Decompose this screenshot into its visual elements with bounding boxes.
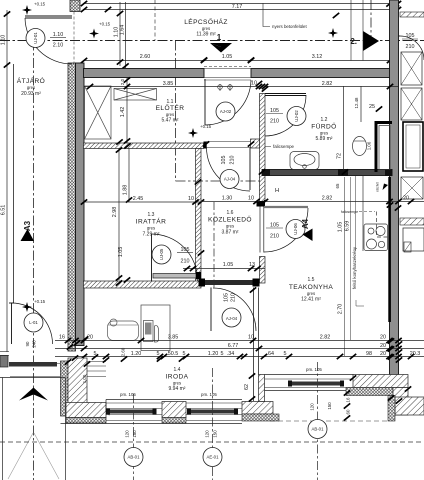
wall: SW corner hatched band vertical (68, 358, 87, 411)
fixture neighbour bold rect (403, 122, 423, 171)
elevation star +0.15 átjáró (22, 302, 32, 312)
svg-text:1.10: 1.10 (1, 35, 7, 46)
wall: right neighbour hatch strip top (400, 12, 424, 17)
node tick cluster top wall joints (201, 57, 207, 62)
svg-text:3.85: 3.85 (163, 81, 174, 87)
svg-text:pm. 105: pm. 105 (120, 392, 136, 397)
window átjáró dark glazing (9, 362, 57, 367)
svg-text:pm. 105: pm. 105 (306, 367, 322, 372)
wall: átjáró west edge line (13, 64, 15, 303)
wall: left wall gray (76, 63, 85, 346)
svg-text:5: 5 (157, 351, 160, 357)
axis window AB-01 (133, 394, 135, 480)
svg-text:3.87 m²: 3.87 m² (222, 230, 239, 236)
wire: vertical dim line x127 elotér (126, 78, 128, 144)
svg-text:105: 105 (270, 108, 279, 114)
svg-text:2.60: 2.60 (140, 54, 151, 60)
svg-text:5: 5 (221, 351, 224, 357)
wire: dim line 2.82 teakonyha top (265, 201, 424, 203)
svg-text:12.48: 12.48 (354, 97, 359, 109)
wall: irattár east hatched wall (196, 149, 202, 287)
svg-text:120: 120 (310, 403, 315, 411)
node UJ-06 bubble (286, 220, 305, 239)
window AB-01 right glazing dark (291, 382, 340, 386)
wire: top dimension line 7.17 (83, 9, 398, 11)
wall: elotér/fürdő divider hatched x259.5-265 (260, 94, 266, 202)
svg-text:pm. 105: pm. 105 (201, 392, 217, 397)
node AJ-04 bubble (iroda) (222, 308, 241, 327)
marker vent arrow (383, 184, 389, 191)
node black cap közlekedő east wall (257, 201, 266, 207)
node tick cluster SE corner (388, 395, 394, 400)
wire: top dimension line upper (83, 3, 398, 5)
fixture upper cabinet dashed (377, 212, 389, 238)
node tick cluster right wall (387, 202, 393, 207)
wire: dim line 1.30 közlekedő (201, 201, 260, 203)
svg-text:210: 210 (181, 259, 190, 265)
door UJ-02 leaf (265, 93, 306, 95)
svg-text:nyers betonfelület: nyers betonfelület (272, 24, 307, 29)
svg-text:1.05: 1.05 (338, 222, 344, 233)
svg-text:210: 210 (231, 293, 237, 302)
wire: dim line x343.5 fürdő (343, 86, 345, 170)
wall: fürdő south dark wall (262, 170, 392, 176)
svg-text:.34: .34 (227, 351, 235, 357)
window AB-01 frame lines (106, 402, 162, 404)
wall: irattár south hatched wall (84, 281, 202, 288)
wall: teakonyha south band outer line (265, 390, 354, 392)
fixture kitchen counter edge (362, 176, 364, 251)
svg-text:felső konyhaszekrény: felső konyhaszekrény (352, 246, 357, 289)
svg-text:6.77: 6.77 (228, 343, 239, 349)
wire: dim chain y340 (55, 340, 424, 342)
wire: dashed line y442 global (0, 441, 424, 443)
section arrow 2 (363, 31, 379, 51)
wall: közlekedő south dark bar (201, 280, 260, 285)
svg-text:1.06: 1.06 (367, 141, 372, 150)
door AJ-02 opening lines in top wall (204, 68, 251, 70)
fixture neighbour X-box 3 (401, 177, 423, 199)
svg-text:FÜRDŐ: FÜRDŐ (311, 122, 336, 131)
svg-text:falicsempe: falicsempe (273, 144, 295, 149)
wire: dashed vline lépcsőház (154, 0, 156, 41)
svg-text:AJ-04: AJ-04 (226, 316, 238, 321)
svg-text:50.5: 50.5 (168, 351, 179, 357)
marker A3 arrow bottom (19, 388, 48, 401)
svg-text:2.45: 2.45 (133, 196, 144, 202)
svg-text:2.82: 2.82 (322, 81, 333, 87)
node AJ-02 bubble (216, 102, 235, 121)
svg-text:105: 105 (406, 33, 415, 39)
svg-text:TEAKONYHA: TEAKONYHA (289, 284, 333, 291)
door UJ-06 swing arc (264, 208, 308, 252)
svg-text:1.20: 1.20 (208, 351, 219, 357)
wall: SE cross-hatch strip vertical (388, 396, 395, 422)
node UJ-02 bubble (287, 107, 306, 126)
svg-text:2.98: 2.98 (112, 207, 118, 218)
elevation star +0.15 lépcsőház (89, 29, 99, 39)
wall: SW corner cross-hatch strip bottom (66, 418, 106, 424)
wall: közlekedő east wall lower hatched (260, 257, 266, 284)
wall: step cross-hatch strip below (242, 414, 279, 421)
node AB-01 right bubble (308, 420, 327, 439)
door adjacent unit top right arc (400, 36, 424, 60)
svg-text:2.: 2. (350, 37, 357, 46)
svg-text:+0.15: +0.15 (34, 299, 46, 304)
svg-text:ELŐTÉR: ELŐTÉR (156, 103, 185, 112)
node UJ-05 bubble (152, 245, 171, 264)
svg-text:72: 72 (337, 153, 343, 159)
door AJ-04 iroda leaf (210, 288, 212, 332)
wire: dim chain y356.5 (55, 356, 424, 358)
svg-text:1.05: 1.05 (223, 262, 234, 268)
window AE-01 frame lines (186, 402, 242, 404)
svg-text:210: 210 (230, 156, 236, 165)
svg-text:2.82: 2.82 (320, 335, 331, 341)
wire: vertical dim line x125 (125, 2, 127, 68)
svg-text:10: 10 (248, 335, 254, 341)
node corner tick cluster left wall end (67, 344, 73, 349)
wire: vertical dim line x117 (119, 2, 121, 66)
wire: dimension line y56 (84, 60, 398, 62)
svg-text:210: 210 (406, 44, 415, 50)
svg-text:ÁTJÁRÓ: ÁTJÁRÓ (17, 76, 45, 85)
svg-text:1.42: 1.42 (120, 107, 126, 118)
wire: left vertical dimension line (6, 10, 8, 352)
svg-text:2.82: 2.82 (322, 196, 333, 202)
fixture neighbour X-box 2 (401, 88, 422, 120)
fixture stove/sink unit (364, 224, 388, 251)
wire: dim chain y348.5 (55, 348, 424, 350)
node tick cluster irattár wall (116, 280, 122, 285)
wall: right neighbour hatch strip middle (400, 218, 424, 225)
door UJ-01 swing arc (25, 18, 72, 64)
elevation star +0.15 top-left (22, 5, 32, 15)
node UJ-01 bubble (26, 29, 45, 48)
door L-01 leaf (11, 303, 13, 344)
svg-text:25: 25 (369, 104, 375, 110)
wall: SW corner hatched band bottom (66, 403, 106, 418)
svg-text:150: 150 (132, 430, 137, 438)
wall: iroda/teakonyha divider thin (253, 288, 255, 402)
node tick iroda top windows (121, 356, 127, 361)
svg-text:7.17: 7.17 (232, 4, 243, 10)
svg-text:3.85: 3.85 (168, 335, 179, 341)
svg-text:falicsempe: falicsempe (341, 210, 358, 214)
section line 1-1 horizontal dash-dot (0, 40, 424, 42)
node AB-01 bubble (124, 448, 143, 467)
svg-text:105: 105 (221, 156, 227, 165)
svg-text:20: 20 (380, 343, 386, 349)
section arrow 1 (210, 43, 232, 53)
svg-text:gres: gres (202, 26, 210, 31)
node sliding door pocket cap (196, 272, 201, 279)
wall: left edge pier dark (0, 356, 8, 368)
svg-text:gres: gres (173, 381, 181, 386)
svg-text:105: 105 (270, 223, 279, 229)
svg-text:5.47 m²: 5.47 m² (162, 118, 179, 124)
svg-text:9.94 m²: 9.94 m² (169, 386, 186, 392)
door UJ-05 swing arc (152, 234, 198, 281)
svg-text:10: 10 (188, 196, 194, 202)
wall: left wall cross-hatch strip top (above door UJ-01) (70, 0, 80, 12)
svg-text:11.39 m²: 11.39 m² (196, 32, 216, 38)
section line A4 elotér vertical (175, 41, 177, 182)
svg-text:10: 10 (248, 196, 254, 202)
svg-text:H: H (275, 188, 279, 194)
door UJ-01 opening dashed jamb (73, 12, 75, 64)
door UJ-01 leaf (25, 15, 72, 17)
svg-text:2.0: 2.0 (120, 78, 125, 85)
wire: dim line 3.85 elotér (84, 86, 260, 88)
door AJ-04 opening lines közlekedő north (207, 141, 251, 143)
marker A4 triangle (303, 229, 313, 242)
svg-text:AJ-04: AJ-04 (224, 177, 236, 182)
svg-text:65: 65 (335, 183, 340, 188)
wall: step hatched vertical piece (259, 375, 265, 402)
svg-text:UJ-06: UJ-06 (293, 223, 298, 235)
wire: dim line x361 fürdő (360, 86, 362, 122)
svg-text:LÉPCSŐHÁZ: LÉPCSŐHÁZ (184, 17, 228, 26)
node door switch symbols (218, 85, 223, 90)
svg-text:20.93 m²: 20.93 m² (21, 91, 41, 97)
svg-text:1.05: 1.05 (118, 247, 124, 258)
wall: SE hatched band right (395, 397, 424, 415)
door L-01 swing arc (12, 303, 53, 344)
wire: extension lines top right (350, 0, 352, 61)
svg-text:IRODA: IRODA (166, 374, 189, 381)
svg-text:6.51: 6.51 (1, 205, 7, 216)
stair room outline bottom-left (0, 377, 66, 379)
svg-text:AB-01: AB-01 (312, 427, 325, 432)
door AJ-02 leaf (204, 79, 206, 125)
svg-text:64: 64 (268, 351, 274, 357)
wire: vertical dim line x129 irattár (128, 148, 130, 202)
wire: dashed line y421 (270, 420, 388, 422)
svg-text:105: 105 (181, 247, 190, 253)
axis window AE-01 (212, 368, 214, 480)
fixture neighbour X-box 1 (401, 52, 422, 85)
node tick marks top (81, 1, 87, 6)
svg-text:5.89 m²: 5.89 m² (316, 136, 333, 142)
wall: teakonyha south band inner line (265, 374, 354, 376)
wall: window pier hatched (162, 402, 186, 418)
svg-text:IRATTÁR: IRATTÁR (136, 217, 167, 226)
svg-text:1.10: 1.10 (53, 32, 64, 38)
svg-text:gres: gres (320, 131, 328, 136)
wall: top gray wall left segment (84, 69, 205, 78)
svg-text:L-01: L-01 (29, 320, 38, 325)
svg-text:90: 90 (25, 341, 30, 346)
svg-text:AE-01: AE-01 (207, 455, 220, 460)
svg-text:gres: gres (147, 226, 155, 231)
door AJ-02 swing arc (205, 80, 251, 125)
wall: window pier cross-hatch strip (162, 418, 186, 424)
door UJ-02 swing arc (265, 95, 306, 136)
node L-01 bubble (24, 313, 43, 332)
svg-text:UJ-05: UJ-05 (159, 248, 164, 260)
svg-text:KÖZLEKEDŐ: KÖZLEKEDŐ (208, 215, 252, 224)
svg-text:20.3: 20.3 (410, 351, 421, 357)
svg-text:1.88: 1.88 (123, 185, 129, 196)
wall: SE cross-hatch strip (346, 388, 393, 396)
section line A4 horizontal jog (176, 180, 263, 182)
svg-text:1.64: 1.64 (120, 25, 126, 36)
wire: dim line 2.82 fürdő (265, 86, 398, 88)
svg-text:1.2: 1.2 (321, 117, 328, 123)
svg-text:120: 120 (125, 430, 130, 438)
svg-text:2.70: 2.70 (338, 304, 344, 315)
window AB-01 glazing dark (108, 410, 156, 414)
fixture neighbour rect + diagonal square (403, 228, 424, 251)
svg-text:AJ-02: AJ-02 (220, 109, 232, 114)
wall: step hatched horizontal piece (242, 402, 273, 415)
svg-text:20: 20 (380, 351, 386, 357)
svg-text:1.6: 1.6 (227, 210, 234, 216)
axis window AB-01 right (317, 362, 319, 480)
svg-text:1.30: 1.30 (222, 196, 233, 202)
svg-text:105: 105 (224, 293, 230, 302)
svg-text:1.5: 1.5 (308, 277, 315, 283)
svg-text:+0.15: +0.15 (99, 22, 111, 27)
svg-text:3.12: 3.12 (312, 54, 323, 60)
window 1.00 porch lines (87, 361, 106, 363)
wall: SE hatched band vertical (393, 388, 408, 416)
svg-text:2.10: 2.10 (53, 43, 64, 49)
axis A3 vertical dash-dot (33, 41, 35, 480)
svg-text:1.00: 1.00 (82, 374, 87, 383)
wire: vertical dim line x119 irattár (118, 148, 120, 280)
window AE-01 glazing dark (190, 410, 234, 414)
svg-text:1: 1 (217, 33, 222, 42)
wall: stub közlekedő north-east hatched (251, 139, 260, 148)
stair diagonals (8, 433, 59, 479)
svg-text:5: 5 (183, 351, 186, 357)
svg-text:A4: A4 (301, 218, 310, 229)
wall: left wall cross-hatch strip (68, 63, 76, 351)
node tick cluster bottom corner SW (65, 359, 71, 364)
door UJ-05 sliding bar (153, 274, 196, 279)
wire: dim line x350.5 teakonyha (350, 177, 352, 340)
door AJ-04 iroda swing arc (213, 288, 256, 331)
svg-text:210: 210 (270, 119, 279, 125)
svg-text:150: 150 (213, 430, 218, 438)
svg-text:13: 13 (249, 262, 255, 268)
svg-text:60: 60 (346, 409, 351, 414)
fixture shelf X elotér top (114, 89, 157, 101)
window AB-01 right frame lines (265, 378, 354, 380)
wire: dim line 2.45 irattár (84, 201, 201, 203)
node tick cluster corridor top (195, 179, 201, 184)
fixture cabinet iroda (141, 305, 170, 351)
svg-text:48: 48 (106, 410, 111, 415)
svg-text:1.20: 1.20 (131, 351, 142, 357)
svg-text:2.60: 2.60 (121, 347, 126, 356)
door AJ-04 swing arc (207, 148, 251, 192)
door UJ-06 jambs (259, 207, 261, 253)
section line 2 vertical top (370, 0, 372, 41)
svg-text:UJ-01: UJ-01 (33, 32, 38, 44)
window átjáró south frame (10, 363, 60, 365)
door UJ-06 leaf (264, 206, 308, 208)
svg-text:16: 16 (346, 397, 351, 402)
door UJ-05 leaf (151, 234, 153, 281)
svg-text:98: 98 (366, 351, 372, 357)
elevation star +0.15 elotér (188, 128, 198, 138)
svg-text:+0.15: +0.15 (34, 2, 46, 7)
wall: SW corner outer cross-hatch strip vertical (61, 361, 69, 416)
svg-text:1.4: 1.4 (174, 367, 181, 373)
fixture shower duct fürdő thick black box (376, 123, 392, 173)
wall: iroda south outer line (61, 423, 243, 425)
svg-text:+0.15: +0.15 (200, 124, 212, 129)
svg-text:A3: A3 (23, 220, 32, 231)
wire: dim line 1.05 közlekedő bottom (183, 268, 265, 270)
node black cap irattár north wall end (204, 142, 207, 149)
axis corridor dash-dot x214 (213, 202, 215, 288)
node tick entrance top (256, 81, 262, 86)
fixture closet X elotér west (85, 86, 112, 139)
node AJ-04 bubble (közlekedő) (220, 170, 239, 189)
wall: kitchen black liner on right wall (388, 177, 391, 322)
svg-text:gres: gres (307, 291, 315, 296)
wall: top gray wall right segment (251, 69, 390, 78)
fixture WC fürdő (353, 137, 367, 156)
wall: irattár north hatched wall (84, 143, 204, 149)
svg-text:7.29 m²: 7.29 m² (143, 232, 160, 238)
svg-text:5: 5 (284, 351, 287, 357)
svg-text:1.05: 1.05 (222, 54, 233, 60)
wall: right gray wall (390, 0, 399, 375)
door AJ-04 leaf (közlekedő north) (249, 148, 251, 191)
svg-text:6.59: 6.59 (345, 221, 351, 232)
svg-text:gres: gres (27, 85, 35, 90)
node AE-01 bubble (203, 448, 222, 467)
marker A3 triangle (21, 229, 35, 241)
svg-text:120: 120 (205, 430, 210, 438)
node tick cluster fürdő wall (259, 169, 265, 174)
svg-text:62: 62 (244, 384, 250, 390)
elevation star top right (328, 28, 338, 38)
wire: dim line x344.5 teakonyha (344, 177, 346, 356)
svg-text:elszívó: elszívó (376, 182, 380, 192)
svg-text:20: 20 (380, 335, 386, 341)
wall: SE hatched band top (353, 375, 408, 388)
svg-text:12.41 m²: 12.41 m² (301, 297, 321, 303)
svg-text:16: 16 (59, 335, 65, 341)
fixture washbasin fürdő (290, 152, 319, 170)
svg-text:240: 240 (32, 340, 37, 348)
svg-text:gres: gres (226, 224, 234, 229)
svg-text:1.3: 1.3 (148, 212, 155, 218)
svg-text:gres: gres (166, 112, 174, 117)
wall: iroda south band inner line (106, 399, 242, 401)
svg-text:150: 150 (327, 402, 332, 410)
svg-text:AB-01: AB-01 (128, 455, 141, 460)
svg-text:UJ-02: UJ-02 (294, 110, 299, 122)
fixture boiler iroda (108, 321, 139, 341)
svg-text:210: 210 (270, 234, 279, 240)
